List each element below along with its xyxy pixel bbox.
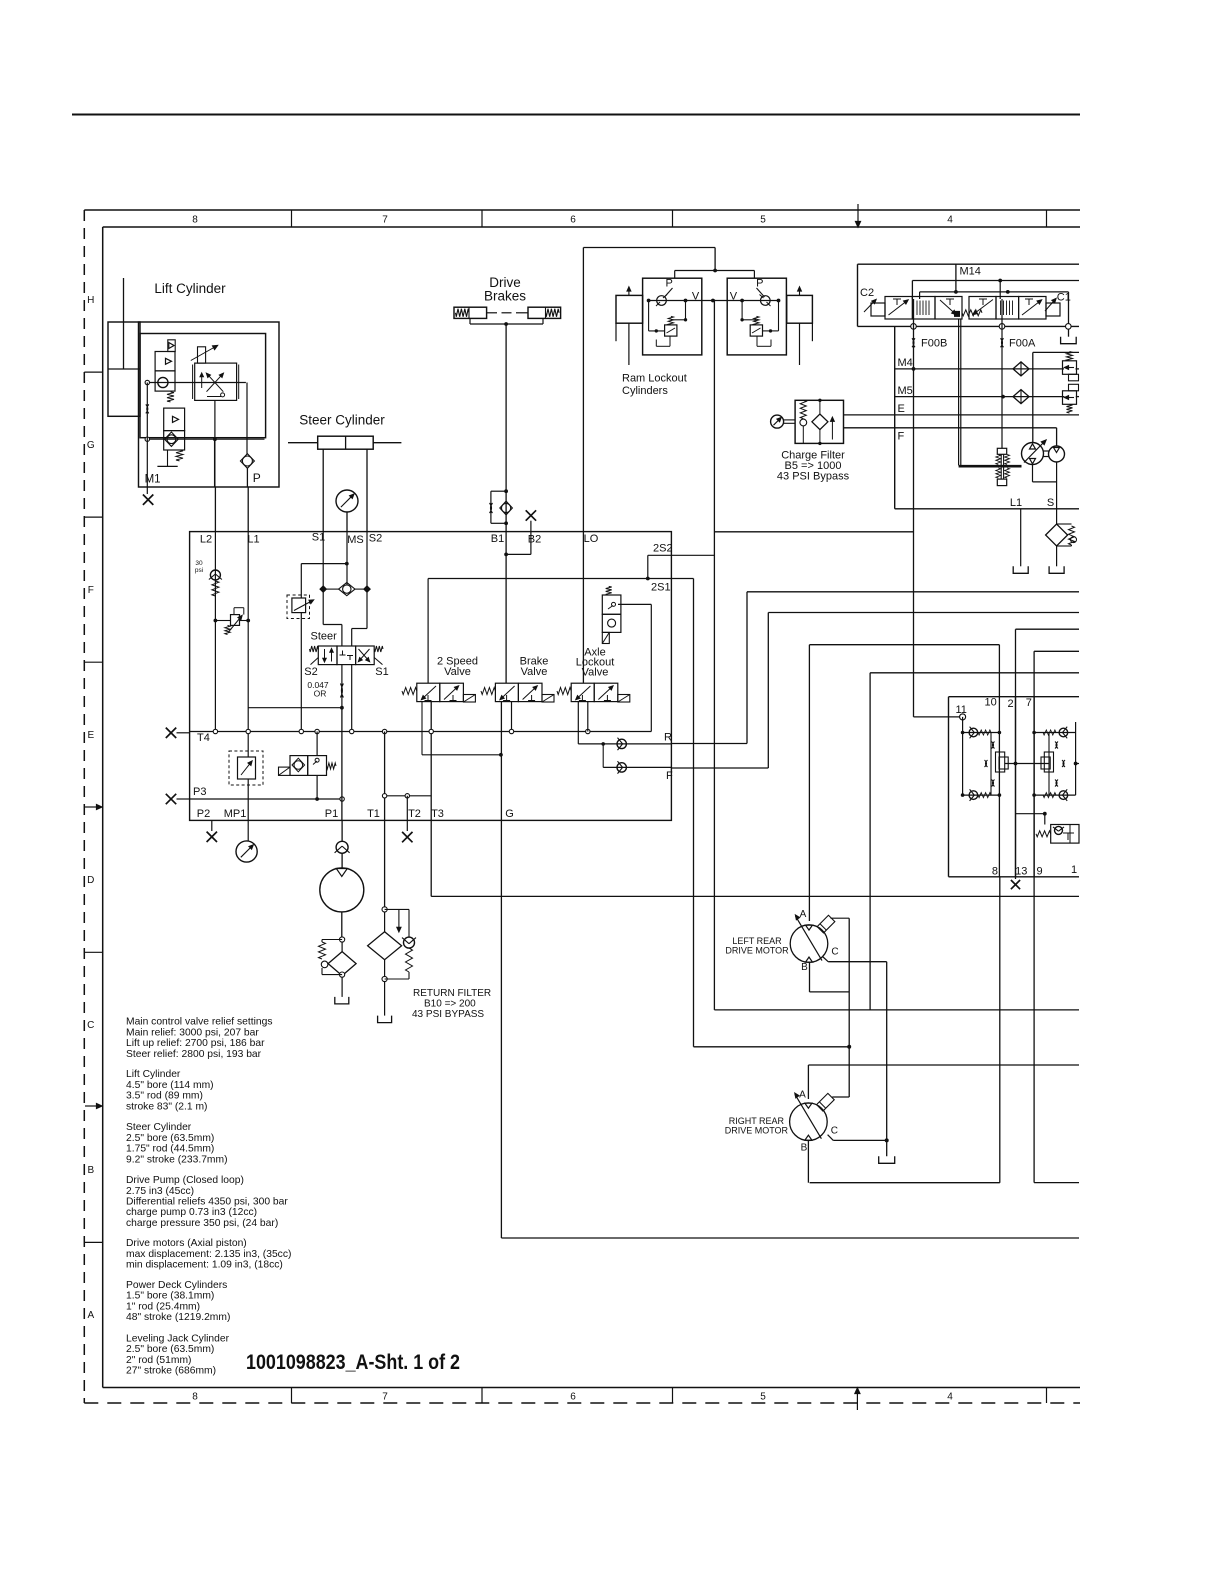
svg-text:MP1: MP1 bbox=[224, 808, 247, 820]
left motor bbox=[790, 925, 828, 963]
inner border bbox=[103, 226, 1080, 228]
svg-text:Steer: Steer bbox=[311, 631, 338, 643]
F00A vertical + stroker bbox=[1001, 299, 1003, 448]
svg-text:1.75" rod (44.5mm): 1.75" rod (44.5mm) bbox=[126, 1144, 214, 1155]
svg-text:G: G bbox=[87, 440, 95, 451]
svg-text:F: F bbox=[898, 431, 905, 443]
svg-text:Lift Cylinder: Lift Cylinder bbox=[126, 1069, 181, 1080]
svg-text:RETURN FILTER: RETURN FILTER bbox=[413, 988, 491, 999]
svg-text:1.5" bore (38.1mm): 1.5" bore (38.1mm) bbox=[126, 1291, 214, 1302]
svg-text:Lift Cylinder: Lift Cylinder bbox=[154, 281, 226, 296]
X marks on block bbox=[166, 728, 176, 738]
svg-text:13: 13 bbox=[1015, 866, 1027, 878]
svg-text:2.5" bore (63.5mm): 2.5" bore (63.5mm) bbox=[126, 1133, 214, 1144]
M14 valve bank bbox=[858, 263, 1080, 265]
main relief (dashed) bbox=[287, 595, 310, 619]
svg-text:LO: LO bbox=[584, 533, 599, 545]
right motor A / port 8 net bbox=[999, 877, 1001, 1183]
svg-text:4.5" bore (114 mm): 4.5" bore (114 mm) bbox=[126, 1080, 214, 1091]
svg-text:stroke 83" (2.1 m): stroke 83" (2.1 m) bbox=[126, 1102, 207, 1113]
svg-text:Main control valve relief sett: Main control valve relief settings bbox=[126, 1017, 273, 1028]
bypass left bbox=[322, 939, 342, 941]
svg-text:P1: P1 bbox=[325, 808, 338, 820]
svg-text:P2: P2 bbox=[197, 808, 210, 820]
svg-text:2: 2 bbox=[1008, 698, 1014, 710]
svg-text:B: B bbox=[801, 1143, 808, 1154]
svg-text:LEFT REAR: LEFT REAR bbox=[732, 936, 782, 946]
left motor A net bbox=[808, 645, 810, 921]
svg-text:Valve: Valve bbox=[582, 667, 609, 679]
svg-text:max displacement: 2.135 in3, (: max displacement: 2.135 in3, (35cc) bbox=[126, 1249, 291, 1260]
internal galleries bbox=[912, 280, 1079, 282]
svg-text:B2: B2 bbox=[528, 534, 541, 546]
svg-text:T2: T2 bbox=[408, 808, 421, 820]
wire gallery M1/P bbox=[147, 382, 246, 384]
svg-text:T4: T4 bbox=[197, 732, 210, 744]
svg-text:H: H bbox=[87, 295, 94, 306]
left cylinder bbox=[616, 295, 643, 323]
svg-text:Cylinders: Cylinders bbox=[622, 385, 668, 397]
pump drain bbox=[1032, 465, 1034, 482]
V-V line bbox=[649, 300, 779, 302]
svg-text:C: C bbox=[831, 947, 838, 958]
svg-text:C: C bbox=[87, 1020, 94, 1031]
svg-text:B: B bbox=[801, 962, 808, 973]
port 7/9 net bbox=[1034, 650, 1079, 652]
svg-text:10: 10 bbox=[984, 697, 996, 709]
svg-text:7: 7 bbox=[382, 215, 388, 226]
svg-text:A: A bbox=[799, 1090, 806, 1101]
svg-text:F00A: F00A bbox=[1009, 338, 1036, 350]
svg-text:B10 => 200: B10 => 200 bbox=[424, 999, 476, 1010]
F00B / F00A ports bbox=[911, 324, 917, 330]
lines below steer valve + 0.047 orifice bbox=[341, 665, 343, 708]
svg-text:R: R bbox=[664, 732, 672, 744]
svg-text:Valve: Valve bbox=[444, 666, 471, 678]
svg-text:F00B: F00B bbox=[921, 338, 947, 350]
right cylinder bbox=[787, 295, 813, 323]
svg-text:F: F bbox=[88, 585, 94, 596]
svg-text:L2: L2 bbox=[200, 534, 212, 546]
svg-text:P: P bbox=[666, 278, 673, 290]
T1 return filter bbox=[384, 820, 386, 907]
svg-text:2S2: 2S2 bbox=[653, 543, 673, 555]
svg-text:9.2" stroke (233.7mm): 9.2" stroke (233.7mm) bbox=[126, 1154, 228, 1165]
svg-text:L1: L1 bbox=[1010, 497, 1022, 509]
svg-text:Steer Cylinder: Steer Cylinder bbox=[126, 1122, 192, 1133]
svg-text:DRIVE MOTOR: DRIVE MOTOR bbox=[725, 1126, 789, 1136]
T3 net bbox=[430, 820, 432, 896]
svg-text:48" stroke (1219.2mm): 48" stroke (1219.2mm) bbox=[126, 1312, 230, 1323]
relief assembly bottom right bbox=[1016, 813, 1045, 815]
svg-text:2" rod (51mm): 2" rod (51mm) bbox=[126, 1355, 191, 1366]
svg-text:Brakes: Brakes bbox=[484, 289, 526, 304]
charge filter bbox=[795, 400, 843, 443]
pump compartment (tall box) bbox=[894, 326, 896, 508]
svg-text:5: 5 bbox=[760, 1392, 766, 1403]
svg-text:S1: S1 bbox=[375, 666, 388, 678]
right motor bbox=[790, 1103, 828, 1141]
svg-text:Ram Lockout: Ram Lockout bbox=[622, 373, 687, 385]
svg-text:C1: C1 bbox=[1057, 292, 1071, 304]
center arrows top/bottom bbox=[857, 204, 859, 226]
svg-text:M5: M5 bbox=[898, 385, 913, 397]
manifold boxes bbox=[139, 322, 280, 487]
MS gauge bbox=[336, 490, 358, 512]
axle pilot valve bbox=[606, 586, 612, 595]
cylinder bbox=[108, 322, 140, 416]
LO feed bbox=[582, 248, 584, 532]
svg-text:B: B bbox=[87, 1165, 94, 1176]
svg-text:C2: C2 bbox=[860, 287, 874, 299]
F00B vertical (to port 11) bbox=[913, 299, 915, 717]
svg-text:Steer relief: 2800 psi, 193 b: Steer relief: 2800 psi, 193 bar bbox=[126, 1049, 262, 1060]
left valve box bbox=[643, 278, 702, 355]
svg-text:6: 6 bbox=[570, 1392, 576, 1403]
left bridge bbox=[962, 717, 964, 795]
svg-text:OR: OR bbox=[314, 689, 327, 699]
svg-text:Lift up relief: 2700 psi, 186: Lift up relief: 2700 psi, 186 bar bbox=[126, 1038, 265, 1049]
svg-text:Drive motors (Axial piston): Drive motors (Axial piston) bbox=[126, 1238, 247, 1249]
svg-text:L1: L1 bbox=[247, 534, 259, 546]
upper valve (solenoid + check) bbox=[155, 352, 175, 371]
svg-text:M1: M1 bbox=[145, 474, 161, 486]
svg-text:8: 8 bbox=[992, 866, 998, 878]
F net bbox=[671, 767, 768, 769]
svg-text:Valve: Valve bbox=[521, 666, 548, 678]
svg-text:S2: S2 bbox=[304, 666, 317, 678]
svg-text:7: 7 bbox=[382, 1392, 388, 1403]
svg-text:Leveling Jack Cylinder: Leveling Jack Cylinder bbox=[126, 1333, 230, 1344]
L2 internals bbox=[214, 532, 216, 732]
outer border bbox=[84, 209, 1080, 211]
right bridge bbox=[1075, 722, 1077, 795]
flow control valve bbox=[195, 363, 237, 400]
port verticals through box bbox=[998, 697, 1000, 877]
G and T lines bbox=[500, 702, 502, 821]
svg-text:P: P bbox=[253, 471, 261, 485]
yoke bbox=[469, 318, 471, 324]
svg-text:9: 9 bbox=[1036, 866, 1042, 878]
svg-text:Power Deck Cylinders: Power Deck Cylinders bbox=[126, 1280, 227, 1291]
svg-text:M14: M14 bbox=[960, 266, 981, 278]
MP1 gauge bbox=[247, 820, 249, 841]
svg-text:7: 7 bbox=[1026, 697, 1032, 709]
lower valve (pilot check) bbox=[164, 408, 185, 431]
T1-T2-T3 tie bbox=[385, 795, 432, 797]
svg-text:T3: T3 bbox=[431, 808, 444, 820]
servo double line to swash arm bbox=[958, 319, 960, 465]
P check (circle in diamond) bbox=[240, 454, 254, 469]
svg-text:P3: P3 bbox=[193, 786, 206, 798]
svg-text:charge pump 0.73 in3 (12cc): charge pump 0.73 in3 (12cc) bbox=[126, 1207, 257, 1218]
wire net port-7 branch bbox=[870, 672, 1079, 674]
valve row bbox=[871, 303, 885, 316]
Main control valve block bbox=[190, 532, 672, 821]
svg-text:3.5" rod (89 mm): 3.5" rod (89 mm) bbox=[126, 1091, 203, 1102]
svg-text:30: 30 bbox=[195, 560, 203, 567]
svg-text:1001098823_A-Sht. 1 of 2: 1001098823_A-Sht. 1 of 2 bbox=[246, 1350, 460, 1374]
right valve box bbox=[727, 278, 786, 355]
left motor wires bbox=[828, 961, 887, 963]
svg-text:M4: M4 bbox=[898, 357, 913, 369]
svg-text:27" stroke (686mm): 27" stroke (686mm) bbox=[126, 1366, 216, 1377]
svg-text:1: 1 bbox=[1071, 864, 1077, 876]
pump circles bbox=[1033, 351, 1079, 353]
svg-text:S: S bbox=[1047, 497, 1054, 509]
svg-text:Main relief: 3000 psi, 207 ba: Main relief: 3000 psi, 207 bar bbox=[126, 1028, 259, 1039]
drive motor manifold box bbox=[949, 696, 1080, 698]
T4 rail bbox=[190, 731, 652, 733]
svg-text:4: 4 bbox=[947, 215, 953, 226]
svg-text:charge pressure 350 psi, (24 b: charge pressure 350 psi, (24 bar) bbox=[126, 1218, 278, 1229]
svg-text:RIGHT REAR: RIGHT REAR bbox=[729, 1116, 785, 1126]
svg-text:S2: S2 bbox=[369, 533, 382, 545]
svg-text:6: 6 bbox=[570, 215, 576, 226]
P1 check + pump bbox=[341, 820, 343, 842]
row ticks + letters bbox=[84, 371, 102, 373]
svg-text:C: C bbox=[831, 1126, 838, 1137]
svg-text:P: P bbox=[756, 278, 763, 290]
svg-text:F: F bbox=[666, 770, 673, 782]
R net bbox=[671, 743, 747, 745]
P3 line and P1 drop bbox=[190, 798, 343, 800]
svg-text:2S1: 2S1 bbox=[651, 582, 671, 594]
svg-text:min displacement: 1.09 in3, (1: min displacement: 1.09 in3, (18cc) bbox=[126, 1260, 283, 1271]
svg-text:A: A bbox=[800, 909, 807, 920]
svg-text:2.5" bore (63.5mm): 2.5" bore (63.5mm) bbox=[126, 1344, 214, 1355]
svg-text:Drive Pump (Closed loop): Drive Pump (Closed loop) bbox=[126, 1175, 244, 1186]
pressure reducing valve (dashed) -> MP1 bbox=[229, 751, 263, 785]
svg-text:43 PSI BYPASS: 43 PSI BYPASS bbox=[412, 1009, 484, 1020]
S1 / S2 drops with jogs into steer valve bbox=[322, 532, 324, 590]
long interconnect nets bbox=[713, 300, 715, 1010]
svg-text:DRIVE MOTOR: DRIVE MOTOR bbox=[725, 946, 789, 956]
svg-text:43 PSI Bypass: 43 PSI Bypass bbox=[777, 471, 850, 483]
svg-text:psi: psi bbox=[195, 567, 203, 574]
svg-text:B1: B1 bbox=[491, 533, 504, 545]
svg-text:G: G bbox=[505, 808, 514, 820]
svg-text:2.75 in3 (45cc): 2.75 in3 (45cc) bbox=[126, 1186, 194, 1197]
svg-text:4: 4 bbox=[947, 1392, 953, 1403]
column ticks + labels bbox=[291, 210, 293, 227]
svg-text:Differential reliefs 4350 psi,: Differential reliefs 4350 psi, 300 bar bbox=[126, 1197, 288, 1208]
svg-text:MS: MS bbox=[347, 534, 364, 546]
svg-text:E: E bbox=[87, 730, 94, 741]
svg-text:5: 5 bbox=[760, 215, 766, 226]
svg-text:1" rod (25.4mm): 1" rod (25.4mm) bbox=[126, 1301, 200, 1312]
svg-text:8: 8 bbox=[192, 215, 198, 226]
P1 solenoid valve bbox=[279, 767, 291, 775]
port 2 net bbox=[1016, 628, 1080, 630]
ports below manifold bbox=[214, 487, 216, 532]
L1 + relief (between L2 and L1 lines) bbox=[247, 532, 249, 757]
G net bbox=[500, 820, 502, 1238]
check assembly above B1 (bypass loop + orifice) bbox=[491, 490, 506, 492]
left relief loop bbox=[648, 301, 650, 331]
svg-text:E: E bbox=[898, 403, 905, 415]
B1 / B2 / LO verticals inside bbox=[505, 532, 507, 683]
svg-text:8: 8 bbox=[192, 1392, 198, 1403]
svg-text:T1: T1 bbox=[367, 808, 380, 820]
top rule bbox=[72, 114, 1080, 116]
MS shuttle (circle in diamond) bbox=[346, 532, 348, 585]
svg-text:D: D bbox=[87, 875, 94, 886]
svg-text:A: A bbox=[87, 1310, 94, 1321]
M4 relief bbox=[1063, 361, 1077, 375]
left center arrows bbox=[85, 806, 100, 808]
svg-text:Steer Cylinder: Steer Cylinder bbox=[299, 413, 385, 428]
